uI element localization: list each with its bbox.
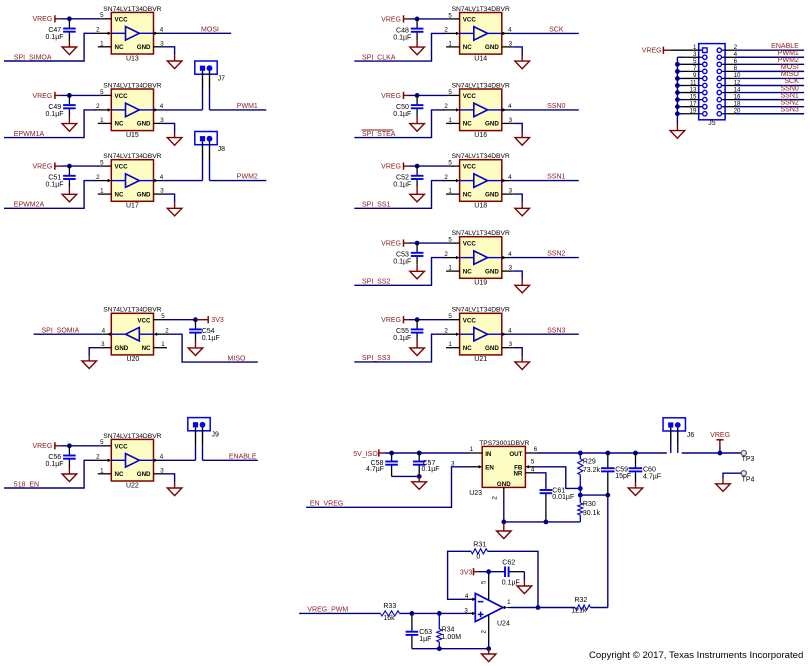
- net label SPI_CLKA: [362, 54, 396, 61]
- svg-text:2: 2: [444, 103, 448, 110]
- svg-text:SSN0: SSN0: [547, 103, 565, 110]
- wire pin 4 of U18 to SSN1: [510, 180, 579, 182]
- junction at C54: [193, 317, 198, 322]
- junction at C58: [389, 451, 394, 456]
- svg-text:ENABLE: ENABLE: [771, 43, 799, 50]
- svg-text:C52: C52: [396, 175, 409, 182]
- wire EPWM2A to pin 2 of U17: [4, 181, 96, 209]
- svg-text:U22: U22: [126, 482, 139, 489]
- svg-text:VREG: VREG: [381, 93, 401, 100]
- svg-text:R33: R33: [383, 603, 396, 610]
- power port VREG (U22): [32, 442, 60, 450]
- svg-text:VREG: VREG: [32, 164, 52, 171]
- net label MOSI (J5): [781, 64, 799, 71]
- jumper J9: [188, 418, 219, 439]
- net label PWM1: [237, 103, 258, 110]
- ground below C55: [410, 348, 425, 356]
- svg-text:3: 3: [160, 188, 164, 195]
- ground below C60: [628, 488, 643, 496]
- svg-text:GND: GND: [485, 268, 499, 275]
- svg-text:R30: R30: [583, 501, 596, 508]
- junction at C53: [415, 241, 420, 246]
- wire J5 pin 12 to SCK: [722, 85, 804, 87]
- svg-text:2: 2: [96, 103, 100, 110]
- svg-text:NC: NC: [115, 121, 124, 128]
- svg-text:U24: U24: [497, 621, 510, 628]
- svg-text:SSN1: SSN1: [547, 174, 565, 181]
- wire pin 4 of U15 to jumper J7: [162, 109, 203, 111]
- svg-text:SN74LV1T34DBVR: SN74LV1T34DBVR: [103, 307, 161, 314]
- wire pin 4 of U13 to MOSI: [162, 32, 231, 34]
- svg-text:1: 1: [100, 188, 104, 195]
- svg-text:VREG: VREG: [32, 443, 52, 450]
- svg-text:2: 2: [96, 454, 100, 461]
- svg-text:0.1µF: 0.1µF: [202, 335, 220, 342]
- svg-text:VREG: VREG: [32, 93, 52, 100]
- svg-text:C54: C54: [202, 328, 215, 335]
- svg-text:C47: C47: [48, 27, 61, 34]
- svg-text:4: 4: [160, 454, 164, 461]
- wire VREG_PWM to R33: [299, 612, 380, 614]
- wire SPI_SIMOA to pin 2 of U13: [4, 33, 96, 61]
- net label SSN0: [547, 103, 565, 110]
- svg-text:GND: GND: [485, 44, 499, 51]
- jumper J8: [195, 132, 225, 154]
- wire J5 pin 6 to PWM2: [722, 63, 804, 65]
- svg-text:GND: GND: [497, 481, 511, 488]
- svg-text:NC: NC: [463, 268, 472, 275]
- svg-text:518_EN: 518_EN: [14, 481, 39, 488]
- svg-text:EN_VREG: EN_VREG: [310, 501, 343, 508]
- resistor R31 0: [471, 541, 488, 560]
- svg-text:3: 3: [509, 341, 513, 348]
- svg-text:VREG: VREG: [32, 16, 52, 23]
- svg-text:R34: R34: [442, 626, 455, 633]
- buffer U13 SN74LV1T34DBVR: [95, 6, 165, 63]
- svg-text:R29: R29: [583, 458, 596, 465]
- wire J5 pin 20 to SSN3: [722, 113, 804, 115]
- svg-text:4: 4: [508, 251, 512, 258]
- svg-text:6: 6: [534, 446, 538, 453]
- wire pin 4 of U14 to SCK: [510, 32, 579, 34]
- capacitor C55 0.1uF: [393, 320, 423, 348]
- svg-text:VREG: VREG: [381, 241, 401, 248]
- svg-text:5: 5: [480, 580, 487, 584]
- net label ENABLE: [229, 453, 257, 460]
- svg-text:3: 3: [509, 265, 513, 272]
- net label MOSI: [201, 26, 219, 33]
- svg-text:2: 2: [96, 27, 100, 34]
- svg-text:2: 2: [492, 496, 499, 500]
- capacitor C49 0.1uF: [46, 95, 76, 123]
- power port VREG (U17): [32, 163, 60, 171]
- capacitor C59 15pF: [601, 453, 631, 495]
- svg-text:C49: C49: [48, 104, 61, 111]
- svg-text:3V3: 3V3: [211, 317, 224, 324]
- capacitor C56 0.1uF: [46, 446, 76, 474]
- test point TP3: [741, 450, 754, 463]
- svg-text:3: 3: [160, 40, 164, 47]
- wire VREG to pin 5 of U22: [60, 445, 100, 447]
- junction at C52: [415, 164, 420, 169]
- regulator U23 TPS73001DBVR: [451, 440, 538, 500]
- wire pin 3 of U21 to ground: [513, 348, 522, 362]
- svg-text:1: 1: [100, 117, 104, 124]
- svg-text:SN74LV1T34DBVR: SN74LV1T34DBVR: [452, 82, 510, 89]
- capacitor C51 0.1uF: [46, 166, 76, 194]
- capacitor C54 0.1uF: [189, 320, 220, 348]
- svg-text:2: 2: [444, 27, 448, 34]
- capacitor C60 4.7uF: [629, 453, 661, 488]
- svg-text:0.1µF: 0.1µF: [46, 461, 64, 468]
- svg-text:VREG_PWM: VREG_PWM: [307, 607, 348, 614]
- net label SPI_SS1: [362, 202, 391, 209]
- svg-text:SN74LV1T34DBVR: SN74LV1T34DBVR: [103, 6, 161, 13]
- capacitor C48 0.1uF: [393, 19, 423, 47]
- svg-text:1: 1: [507, 599, 511, 606]
- ground at pin 3 of U14: [515, 61, 530, 69]
- ground at TP4: [716, 484, 731, 492]
- resistor R29 73.2k: [578, 453, 601, 488]
- svg-text:1: 1: [161, 341, 165, 348]
- svg-text:TP3: TP3: [742, 456, 755, 463]
- ground below C56: [62, 474, 77, 482]
- svg-text:2: 2: [96, 174, 100, 181]
- net label EPWM2A: [14, 202, 45, 209]
- wire J5 pin 10 to MISO: [722, 77, 804, 79]
- ground at C62: [517, 586, 532, 594]
- svg-text:NC: NC: [115, 471, 124, 478]
- svg-text:4: 4: [531, 466, 535, 473]
- wire VREG to pin 5 of U16: [409, 94, 449, 96]
- wire pin 3 of U17 to ground: [165, 194, 175, 208]
- net label EN_VREG: [310, 501, 343, 508]
- svg-text:2: 2: [444, 174, 448, 181]
- svg-text:4: 4: [160, 174, 164, 181]
- svg-text:TP4: TP4: [742, 476, 755, 483]
- ground at pin 3 of U17: [167, 208, 182, 216]
- wire pin 3 of U22 to ground: [165, 474, 175, 488]
- wire pin 3 of U18 to ground: [513, 194, 522, 208]
- buffer U20 SN74LV1T34DBVR (mirrored): [100, 307, 170, 364]
- svg-text:J7: J7: [218, 76, 226, 83]
- wire 518_EN to pin 2 of U22: [4, 460, 96, 488]
- svg-text:GND: GND: [485, 121, 499, 128]
- svg-text:1.00M: 1.00M: [442, 634, 462, 641]
- wire U24 output to R32: [511, 605, 575, 610]
- svg-text:SN74LV1T34DBVR: SN74LV1T34DBVR: [452, 230, 510, 237]
- svg-text:0.1µF: 0.1µF: [393, 335, 411, 342]
- net label SSN3 (J5): [781, 106, 799, 113]
- svg-text:EN: EN: [485, 465, 494, 472]
- svg-text:0.1µF: 0.1µF: [393, 111, 411, 118]
- ground below C57: [412, 482, 427, 490]
- svg-text:C55: C55: [396, 328, 409, 335]
- svg-text:NC: NC: [142, 345, 151, 352]
- ground at U23 GND: [497, 531, 512, 539]
- wire pin 3 of U14 to ground: [513, 47, 522, 61]
- svg-text:0.1µF: 0.1µF: [393, 34, 411, 41]
- svg-text:SN74LV1T34DBVR: SN74LV1T34DBVR: [452, 153, 510, 160]
- svg-text:PWM2: PWM2: [237, 174, 258, 181]
- svg-text:3: 3: [509, 188, 513, 195]
- svg-text:VREG: VREG: [381, 317, 401, 324]
- svg-text:VCC: VCC: [463, 164, 477, 171]
- wire pin 4 of U16 to SSN0: [510, 109, 579, 111]
- svg-text:16k: 16k: [383, 615, 395, 622]
- jumper J9 legs: [196, 427, 203, 460]
- svg-text:0.1µF: 0.1µF: [393, 259, 411, 266]
- net label SSN0 (J5): [781, 85, 799, 92]
- junction at C50: [415, 93, 420, 98]
- net label EPWM1A: [14, 131, 45, 138]
- wire VREG to pin 5 of U17: [60, 165, 100, 167]
- svg-text:NC: NC: [115, 191, 124, 198]
- ground at pin 3 of U18: [515, 208, 530, 216]
- capacitor C61 0.01uF: [540, 488, 575, 522]
- svg-text:3: 3: [509, 117, 513, 124]
- svg-text:R31: R31: [473, 541, 486, 548]
- svg-text:73.2k: 73.2k: [583, 467, 601, 474]
- net label SPI_SIMOA: [14, 54, 52, 61]
- buffer U15 SN74LV1T34DBVR: [95, 82, 165, 138]
- svg-text:C51: C51: [48, 175, 61, 182]
- net label MISO (J5): [781, 71, 799, 78]
- wire SPI_SS1 to pin 2 of U18: [354, 181, 444, 209]
- svg-text:U21: U21: [474, 356, 487, 363]
- wire R32 to FB node: [591, 495, 608, 607]
- net label PWM2 (J5): [778, 57, 799, 64]
- wire VREG to pin 5 of U19: [409, 242, 449, 244]
- wire J5 pin 2 to ENABLE: [722, 49, 804, 51]
- svg-text:SSN2: SSN2: [547, 251, 565, 258]
- svg-text:J6: J6: [687, 432, 695, 439]
- wire J5 pin 16 to SSN1: [722, 99, 804, 101]
- svg-text:1: 1: [448, 188, 452, 195]
- svg-text:SPI_SS1: SPI_SS1: [362, 202, 391, 209]
- net label SSN2 (J5): [781, 99, 799, 106]
- svg-text:2: 2: [165, 327, 169, 334]
- resistor R32 121k: [571, 597, 590, 614]
- wire pin 4 of U17 to jumper J8: [162, 180, 203, 182]
- junction at C57: [417, 451, 422, 456]
- wire jumper J8 to PWM2: [210, 180, 267, 182]
- ground at pin 3 of U15: [167, 138, 182, 146]
- svg-text:5: 5: [531, 459, 535, 466]
- wire SPI_SS3 to pin 2 of U21: [354, 334, 444, 362]
- svg-text:SPI_CLKA: SPI_CLKA: [362, 54, 396, 61]
- capacitor C53 0.1uF: [393, 243, 423, 271]
- wire pin 4 of U21 to SSN3: [510, 333, 579, 335]
- svg-text:1: 1: [448, 341, 452, 348]
- wire pin 3 of U16 to ground: [513, 123, 522, 137]
- capacitor C52 0.1uF: [393, 166, 423, 194]
- svg-text:U20: U20: [126, 356, 139, 363]
- wire pin 5 of U20 to 3V3: [164, 319, 196, 321]
- svg-text:GND: GND: [115, 345, 129, 352]
- svg-text:4: 4: [508, 27, 512, 34]
- svg-text:SPI_SIMOA: SPI_SIMOA: [14, 54, 52, 61]
- net label SPI_SOMIA: [42, 327, 80, 334]
- svg-text:4: 4: [508, 327, 512, 334]
- power port 3V3 (U24): [460, 568, 479, 576]
- net label SSN2: [547, 251, 565, 258]
- wire pin 5 (FB) of U23 to R29/R30 node: [536, 467, 582, 491]
- power port 5V_ISO: [353, 449, 384, 458]
- svg-text:OUT: OUT: [509, 451, 522, 458]
- wire SPI_SS2 to pin 2 of U19: [354, 258, 444, 286]
- svg-text:PWM1: PWM1: [778, 50, 799, 57]
- svg-text:SN74LV1T34DBVR: SN74LV1T34DBVR: [452, 307, 510, 314]
- svg-text:2: 2: [480, 630, 487, 634]
- wire 3V3 to U24 V+ and C62: [479, 569, 505, 577]
- svg-text:PWM2: PWM2: [778, 57, 799, 64]
- ground at pin 3 of U21: [515, 362, 530, 370]
- svg-text:R32: R32: [574, 597, 587, 604]
- svg-text:MISO: MISO: [228, 355, 246, 362]
- wire J5 pin 18 to SSN2: [722, 106, 804, 108]
- svg-text:J9: J9: [212, 431, 220, 438]
- wire pin 4 of U24 to R31: [448, 551, 471, 599]
- net label SCK: [549, 27, 564, 34]
- wire pin 6 of U23 (VREG output): [537, 451, 741, 456]
- svg-text:PWM1: PWM1: [237, 103, 258, 110]
- net label MISO: [228, 355, 246, 362]
- junction at C56: [67, 443, 72, 448]
- svg-text:U15: U15: [126, 132, 139, 139]
- ground below C51: [62, 194, 77, 202]
- wire EN_VREG to pin 3 of U23: [306, 467, 469, 508]
- power port VREG (U13): [32, 15, 60, 23]
- ground below C47: [62, 47, 77, 55]
- ground below C54: [188, 348, 203, 356]
- svg-text:SSN3: SSN3: [547, 327, 565, 334]
- ground below C52: [410, 194, 425, 202]
- wire VREG to pin 5 of U21: [409, 319, 449, 321]
- wire C58/C57 commons to ground: [392, 474, 422, 482]
- svg-text:15pF: 15pF: [615, 473, 631, 480]
- net label SSN1 (J5): [781, 92, 799, 99]
- ground at pin 3 of U22: [167, 488, 182, 496]
- svg-text:1: 1: [470, 446, 474, 453]
- svg-text:J8: J8: [218, 146, 226, 153]
- net label SPI_SS3: [362, 355, 391, 362]
- svg-text:3: 3: [160, 117, 164, 124]
- power port VREG (U21): [381, 316, 409, 324]
- capacitor C58 4.7uF: [366, 453, 398, 476]
- svg-text:4: 4: [508, 174, 512, 181]
- svg-text:3: 3: [160, 467, 164, 474]
- wire C63/R34/U24 V- to ground: [412, 641, 491, 654]
- buffer U14 SN74LV1T34DBVR: [443, 6, 513, 63]
- wire TP4 to ground: [723, 473, 741, 484]
- svg-text:1: 1: [448, 265, 452, 272]
- svg-text:U17: U17: [126, 203, 139, 210]
- svg-text:U18: U18: [474, 203, 487, 210]
- ground at pin 3 of U19: [515, 285, 530, 293]
- wire jumper J7 to PWM1: [210, 109, 267, 111]
- buffer U22 SN74LV1T34DBVR: [95, 433, 165, 490]
- svg-text:SCK: SCK: [784, 78, 799, 85]
- wire pin 3 of U19 to ground: [513, 271, 522, 285]
- op-amp U24: [464, 577, 511, 641]
- svg-text:4: 4: [160, 103, 164, 110]
- svg-text:0.1µF: 0.1µF: [422, 466, 440, 473]
- jumper J7: [195, 61, 225, 83]
- net label SSN1: [547, 174, 565, 181]
- svg-text:GND: GND: [137, 191, 151, 198]
- power port VREG (regulator output): [710, 432, 730, 453]
- svg-text:SPI_SS2: SPI_SS2: [362, 279, 391, 286]
- svg-text:4.7µF: 4.7µF: [366, 466, 384, 473]
- svg-text:1: 1: [448, 40, 452, 47]
- svg-text:SSN3: SSN3: [781, 106, 799, 113]
- svg-text:IN: IN: [485, 451, 492, 458]
- svg-text:VCC: VCC: [115, 443, 129, 450]
- svg-text:C62: C62: [502, 560, 515, 567]
- net label PWM2: [237, 174, 258, 181]
- wire J5 odd pins bus to ground: [675, 57, 702, 130]
- svg-text:Copyright © 2017, Texas Instru: Copyright © 2017, Texas Instruments Inco…: [589, 650, 803, 661]
- svg-text:2: 2: [444, 327, 448, 334]
- ground at U24 V-: [481, 654, 496, 662]
- wire pin 3 of U15 to ground: [165, 123, 175, 137]
- svg-text:SSN0: SSN0: [781, 85, 799, 92]
- power port VREG (J5 pin 1): [642, 47, 671, 55]
- resistor R33 16k: [380, 603, 399, 622]
- svg-text:SSN2: SSN2: [781, 99, 799, 106]
- connector J5 20-pin header: [690, 44, 741, 127]
- jumper J8 legs: [203, 141, 210, 180]
- wire VREG to pin 5 of U14: [409, 18, 449, 20]
- junction at C51: [67, 164, 72, 169]
- svg-text:GND: GND: [485, 345, 499, 352]
- copyright note: [589, 650, 803, 661]
- wire VREG to pin 5 of U15: [60, 94, 100, 96]
- wire pin 3 of U13 to ground: [165, 47, 175, 61]
- svg-text:GND: GND: [485, 191, 499, 198]
- wire SPI_STEA to pin 2 of U16: [354, 110, 444, 138]
- svg-text:121k: 121k: [571, 608, 587, 615]
- svg-text:SN74LV1T34DBVR: SN74LV1T34DBVR: [103, 433, 161, 440]
- wire pin 4 of U19 to SSN2: [510, 257, 579, 259]
- svg-text:VREG: VREG: [381, 16, 401, 23]
- power port VREG (U18): [381, 163, 409, 171]
- capacitor C57 0.1uF: [413, 453, 440, 476]
- buffer U16 SN74LV1T34DBVR: [443, 82, 513, 138]
- svg-text:ENABLE: ENABLE: [229, 453, 257, 460]
- net label SPI_STEA: [362, 130, 396, 138]
- svg-text:VCC: VCC: [137, 317, 151, 324]
- wire pin 4 (NR) of U23 to C61: [536, 473, 546, 489]
- wire 5V_ISO to pin 1 of U23: [385, 452, 470, 454]
- wire J5 pin 4 to PWM1: [722, 56, 804, 58]
- svg-text:TPS73001DBVR: TPS73001DBVR: [479, 440, 529, 447]
- svg-text:U16: U16: [474, 132, 487, 139]
- power port VREG (U19): [381, 240, 409, 248]
- svg-text:NC: NC: [115, 44, 124, 51]
- svg-text:VCC: VCC: [463, 241, 477, 248]
- power port VREG (U14): [381, 15, 409, 23]
- wire VREG to pin 5 of U13: [60, 18, 100, 20]
- ground below C49: [62, 124, 77, 132]
- svg-text:SSN1: SSN1: [781, 92, 799, 99]
- svg-text:0.1µF: 0.1µF: [46, 111, 64, 118]
- svg-text:EPWM1A: EPWM1A: [14, 131, 45, 138]
- svg-text:4: 4: [508, 103, 512, 110]
- svg-text:4: 4: [102, 327, 106, 334]
- svg-text:MISO: MISO: [781, 71, 799, 78]
